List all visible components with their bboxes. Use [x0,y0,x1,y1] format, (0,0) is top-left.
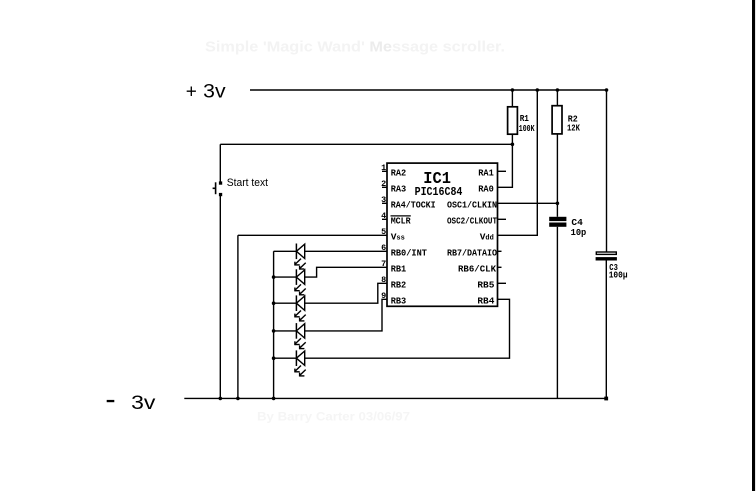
pin stub 3 RA4 [382,202,387,204]
LED D3 [295,295,306,321]
LED D5 [295,350,306,376]
wire C3 riser [606,90,608,252]
svg-text:100µ: 100µ [609,271,628,281]
svg-text:100K: 100K [519,124,535,134]
svg-text:6: 6 [381,243,386,253]
wire LED3 left [274,302,297,304]
wire LED1 right to RB0 [305,250,387,252]
svg-text:RB2: RB2 [391,281,407,291]
wire LED5 right to RB4 [305,299,510,358]
svg-text:RA3: RA3 [391,185,407,195]
svg-text:7: 7 [381,259,386,269]
svg-text:Simple 'Magic Wand' Message sc: Simple 'Magic Wand' Message scroller. [205,39,505,55]
pin stub 1 RA2 [382,170,387,172]
junction dots top rail [511,88,515,92]
pin stub RB5 [498,282,507,284]
right edge black bar [752,0,755,491]
wire R2 bottom to C4 [556,134,558,217]
pin stub RA1 [498,170,507,172]
LED D4 [295,323,306,349]
svg-text:8: 8 [381,275,386,285]
wire -3v bottom rail [184,397,606,399]
svg-text:OSC2/CLKOUT: OSC2/CLKOUT [447,217,497,227]
svg-text:RB3: RB3 [391,297,407,307]
junction dot R1 bottom [511,143,515,147]
wire R1 top [511,90,513,107]
wire Vdd riser [498,90,538,235]
junction dots LED bus [272,275,276,279]
wire LED cathode bus [273,251,275,398]
pin stub RB7 [498,250,502,252]
wire LED1 left [274,250,297,252]
junction dot OSC1/C4 [556,202,560,206]
svg-text:RB4: RB4 [477,297,495,307]
left pin labels [391,169,436,307]
wire LED3 right step [305,283,387,303]
svg-text:PIC16C84: PIC16C84 [415,186,463,199]
wire +3v top rail [250,89,607,91]
svg-text:1: 1 [381,163,386,173]
svg-text:OSC1/CLKIN: OSC1/CLKIN [447,201,497,211]
svg-text:3v: 3v [131,393,156,414]
svg-text:2: 2 [381,179,386,189]
resistor R1 body [508,107,518,134]
wire switch vertical lower [219,195,221,399]
svg-text:RA4/TOCKI: RA4/TOCKI [391,201,436,211]
switch contact dot lower [219,193,222,196]
svg-text:RB0/INT: RB0/INT [391,249,428,259]
junction dots bottom rail [219,397,223,401]
capacitor C3 plates [596,252,616,254]
MCLR overline [391,215,411,217]
svg-text:12K: 12K [567,124,580,134]
pin stub 4 MCLR [382,218,387,220]
wire switch vertical upper [219,144,221,183]
capacitor C4 plates [549,217,566,221]
terminal square bottom right [604,397,608,401]
IC U1 box [387,163,498,306]
svg-text:MCLR: MCLR [391,217,412,227]
svg-text:C4: C4 [571,217,583,228]
wire LED5 left [274,357,297,359]
svg-text:4: 4 [381,211,386,221]
wire R2 top [556,90,558,106]
svg-text:By Barry Carter 03/06/97: By Barry Carter 03/06/97 [257,409,410,423]
svg-text:R1: R1 [520,113,529,124]
right pin labels [447,169,498,307]
wire Vss vertical [237,235,239,398]
pin stub OSC2/CLKOUT [498,218,507,220]
svg-text:RB7/DATAIO: RB7/DATAIO [447,249,498,259]
svg-text:3v: 3v [203,81,226,102]
svg-text:RB6/CLK: RB6/CLK [458,265,497,275]
wire C3 bottom [605,261,607,399]
svg-text:10p: 10p [571,228,587,238]
wire R1 bottom [511,134,513,144]
pin numbers [381,163,386,301]
svg-text:3: 3 [381,195,386,205]
pin stub RB6 [498,266,502,268]
pin stub 2 RA3 [382,186,387,188]
LED D2 [295,269,306,295]
wire LED2 right step [305,267,387,277]
wire LED2 left [274,276,297,278]
wire LED4 left [274,330,297,332]
wire C4 bottom [556,227,558,399]
resistor R2 body [552,106,562,134]
svg-text:RB5: RB5 [477,281,494,291]
svg-text:5: 5 [381,227,386,237]
label -3v [107,400,115,402]
svg-text:RA0: RA0 [478,185,494,195]
wire LED4 right to RB3 [305,299,387,331]
LED D1 [295,244,306,270]
wire RA0 to R1 bottom [498,144,513,187]
svg-text:RA2: RA2 [391,169,407,179]
wire switch top horizontal [220,143,512,145]
wire Vss horizontal [238,234,387,236]
svg-text:9: 9 [381,291,386,301]
wire OSC1/CLKIN to C4 [498,202,558,204]
svg-text:+: + [186,81,197,102]
switch contact dot upper [219,181,222,184]
svg-text:RB1: RB1 [391,265,407,275]
switch S1 actuator [213,182,216,194]
svg-text:Start text: Start text [227,177,268,189]
svg-text:RA1: RA1 [478,169,494,179]
